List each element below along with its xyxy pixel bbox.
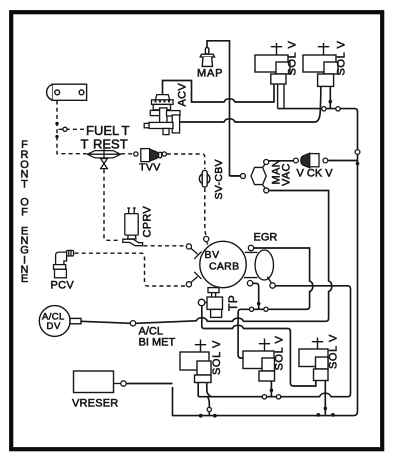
wire VRESER to bus2 corner [127, 383, 173, 385]
carb lower-right port circle [247, 281, 252, 286]
wire SOL V B2 output down to bus1 [270, 381, 272, 397]
VRESER [74, 371, 114, 393]
bus2 junction dots at B1 [199, 414, 203, 418]
carb lower-left port [186, 282, 191, 287]
svg-text:VRESER: VRESER [72, 398, 118, 410]
SOL V T1 (top left) [255, 43, 290, 109]
node circle on FUEL T branch [63, 127, 67, 131]
carb upper-left port [186, 244, 191, 249]
T REST fitting [87, 149, 120, 169]
SOL V B1 (bottom left) [180, 340, 211, 383]
dot above B3/bus2 junction [324, 407, 328, 411]
svg-text:T: T [21, 179, 29, 191]
svg-text:VAC: VAC [281, 163, 293, 186]
dot above B2 output junction [270, 389, 274, 393]
svg-text:SOL V: SOL V [287, 40, 299, 75]
svg-text:REST: REST [93, 137, 128, 152]
TP assembly under carb [198, 288, 222, 318]
svg-text:SOL V: SOL V [336, 40, 348, 75]
wire V CK V to trunk B [328, 160, 358, 162]
svg-text:TP: TP [226, 295, 240, 311]
wire A/CL DV to circle [81, 321, 131, 323]
circle on A/CL wire [130, 321, 135, 326]
ACV valve [144, 95, 180, 135]
SV-CBV grommet [199, 170, 210, 187]
svg-text:F: F [21, 207, 29, 219]
svg-text:PCV: PCV [51, 280, 75, 292]
V CK V check valve [294, 153, 328, 168]
wire right trunk B down to bottom bus2 [173, 111, 358, 416]
wire CPRV right to carb upper-left circle [144, 245, 186, 247]
dot above T2 output junction [329, 100, 333, 104]
wire ACV top port to SOL V T1 (y=102 line with hop over trunk) [163, 81, 275, 103]
wire carb lower-right port into y=309 line [253, 283, 259, 309]
wire T REST right to TVV [121, 153, 133, 155]
wire bracket down to T REST corner [57, 101, 87, 154]
wire TP port down and to SOL V B3 (W2) [202, 306, 316, 386]
dashed vacuum lines [57, 101, 206, 287]
TVV valve [134, 149, 167, 162]
wire T REST bottom to CPRV [104, 170, 120, 241]
wire ACV right port to SOL V T2 (y=122 line with hop, S-bend up) [180, 86, 321, 122]
svg-text:SV-CBV: SV-CBV [213, 159, 225, 199]
wire TVV right to SV-CBV corner [167, 154, 205, 169]
open circles on y=309 line [250, 307, 254, 311]
wire SOL V T1/T2 outputs to right trunk (y=108.6) [278, 109, 358, 112]
junction dots on dashed fuel line [55, 122, 58, 139]
svg-text:TVV: TVV [139, 162, 161, 174]
PCV valve [54, 250, 74, 277]
wire EGR top circle to y=309 line (down x=309.6, hop at y=286) [238, 248, 313, 358]
svg-text:BI MET: BI MET [139, 337, 176, 349]
wire MAN VAC left port [231, 175, 240, 177]
svg-text:MAP: MAP [197, 68, 223, 80]
wire SV-CBV down to carb top circle [205, 188, 206, 235]
wire SOL V T2 right pipe edge down [329, 86, 331, 108]
SOL V T2 (top right) [303, 43, 338, 86]
wire SOL V B1 pipe to bus1 / drop to bus2 [198, 383, 211, 397]
bus2 junction dots at B3 [316, 413, 320, 417]
junction dot above y309 line [257, 302, 261, 306]
wire FUEL T branch [59, 128, 85, 130]
MAP sensor [200, 48, 214, 67]
svg-text:BV: BV [205, 249, 220, 261]
wire EGR bottom circle to trunk A and bus1 [198, 286, 350, 397]
SOL V B2 (bottom middle) [243, 339, 275, 382]
EGR bottom port circle [270, 283, 275, 288]
svg-text:DV: DV [47, 321, 61, 332]
open circle on B1 drop [207, 407, 211, 411]
wire SOL V B3 output down to bus2 [324, 381, 326, 415]
svg-text:E: E [21, 273, 29, 285]
junction dot trunk B / VCKV [356, 162, 360, 166]
CPRV valve [123, 208, 143, 246]
open circles on bus1 [262, 395, 266, 399]
wire MAP to vertical trunk [207, 41, 240, 176]
A/CL DV [39, 306, 81, 337]
carburetor BV CARB [200, 241, 246, 287]
bracket (top-left) [47, 84, 87, 100]
open circles on y=108.6 line [322, 107, 326, 111]
svg-text:EGR: EGR [254, 232, 278, 244]
EGR top port circle [248, 245, 253, 250]
SOL V B3 (bottom right) [299, 338, 328, 381]
svg-text:SOL V: SOL V [211, 340, 223, 375]
svg-text:SOL V: SOL V [274, 335, 286, 370]
svg-text:T: T [81, 137, 89, 152]
wire MAN VAC top circle to V CK V left circle [269, 160, 294, 162]
svg-text:CPRV: CPRV [142, 206, 154, 238]
svg-text:SOL V: SOL V [328, 334, 340, 369]
carb top port [204, 236, 209, 241]
wire PCV to carb lower-left circle [75, 253, 186, 286]
svg-text:V CK V: V CK V [297, 168, 334, 180]
wire MAN VAC bottom port to A/CL line (down x=328.6 with hop at y=286) [136, 191, 332, 324]
EGR valve cylinder [244, 250, 274, 283]
node FRONT OF ENGINE label [20, 139, 30, 285]
svg-text:CARB: CARB [209, 261, 239, 273]
MAN VAC hexagon [241, 160, 269, 193]
svg-text:ACV: ACV [177, 83, 189, 107]
open circle on trunk B [355, 150, 360, 155]
